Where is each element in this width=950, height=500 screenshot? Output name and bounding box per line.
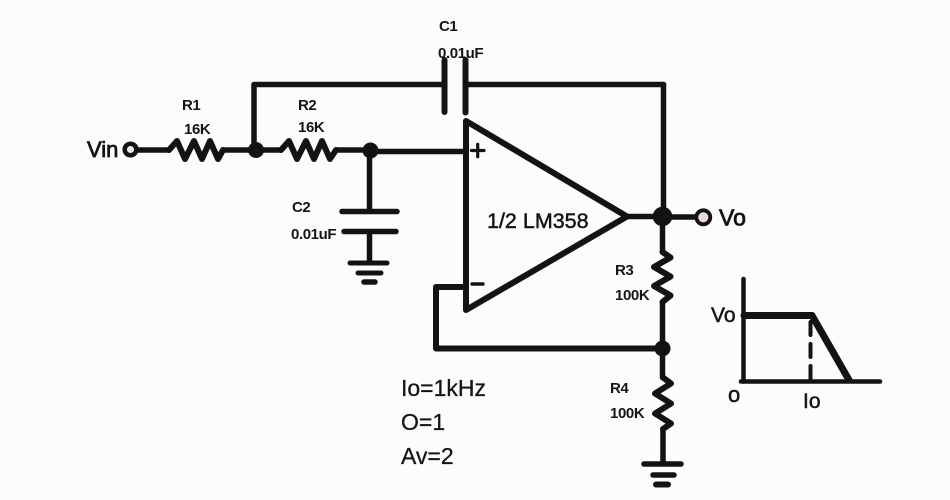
junction node B (R2/C2/op-amp +) — [363, 143, 379, 159]
pin - (inverting input) — [472, 282, 483, 285]
pin + (non-inverting input) — [472, 144, 485, 156]
svg-text:Av=2: Av=2 — [401, 443, 454, 469]
wire C1 right plate to output column — [468, 82, 664, 88]
svg-text:R3: R3 — [615, 262, 633, 279]
junction node A (R1/R2/C1 feedback) — [248, 142, 264, 158]
svg-text:16K: 16K — [184, 121, 211, 138]
wire R1 to junction — [223, 147, 248, 153]
svg-text:100K: 100K — [615, 287, 650, 304]
resistor R1 — [169, 141, 223, 159]
op-amp U1 1/2 LM358 — [466, 121, 627, 310]
graph y-axis — [741, 279, 746, 382]
svg-text:1/2 LM358: 1/2 LM358 — [487, 209, 589, 233]
graph response curve flat — [744, 312, 812, 319]
svg-text:o: o — [728, 382, 740, 407]
svg-text:R4: R4 — [610, 380, 629, 397]
wire node C down to R3 — [660, 217, 666, 252]
capacitor C2 — [342, 212, 397, 232]
terminal Vin — [125, 144, 137, 156]
svg-text:O=1: O=1 — [401, 409, 445, 435]
wire top to C1 left plate — [254, 82, 442, 88]
resistor R3 — [654, 252, 671, 302]
wire R2 to junction B — [336, 147, 362, 153]
resistor R4 — [655, 378, 671, 430]
wire node A to R2 — [256, 147, 281, 153]
wire Vin to R1 — [138, 147, 169, 153]
svg-text:Io: Io — [803, 390, 821, 413]
svg-text:C2: C2 — [292, 199, 310, 216]
wire node D down to R4 — [660, 349, 666, 378]
wire R4 to ground — [660, 429, 666, 461]
svg-text:C1: C1 — [439, 18, 457, 35]
wire node C to Vo terminal — [663, 214, 695, 220]
wire node B to op-amp + input — [371, 149, 467, 155]
graph x-axis — [741, 379, 880, 384]
wire feedback from op-amp - input — [436, 287, 663, 349]
wire down to output node — [661, 85, 667, 213]
wire C2 to ground — [367, 234, 373, 261]
wire node B down to C2 — [367, 151, 373, 209]
ground (C2) — [350, 263, 387, 282]
wire node A up to C1 — [251, 85, 257, 150]
svg-text:16K: 16K — [298, 119, 325, 136]
capacitor C1 — [445, 60, 466, 113]
svg-text:R1: R1 — [182, 97, 200, 114]
ground (R4) — [644, 464, 681, 485]
graph response curve rolloff — [812, 316, 849, 381]
svg-text:0.01uF: 0.01uF — [291, 226, 336, 243]
graph dashed cutoff line — [809, 322, 813, 381]
svg-text:100K: 100K — [610, 405, 645, 422]
svg-text:Vin: Vin — [87, 137, 118, 162]
wire op-amp output to node C — [627, 214, 655, 220]
resistor R2 — [281, 141, 336, 159]
svg-text:Vo: Vo — [711, 304, 736, 327]
svg-text:Vo: Vo — [719, 205, 746, 231]
svg-text:0.01uF: 0.01uF — [438, 45, 483, 62]
junction node D (R3/R4/feedback) — [655, 341, 671, 357]
svg-text:Io=1kHz: Io=1kHz — [401, 375, 486, 401]
svg-text:R2: R2 — [298, 97, 316, 114]
junction node C (output) — [653, 207, 673, 227]
terminal Vo — [696, 210, 710, 224]
wire R3 to node D — [660, 302, 666, 342]
